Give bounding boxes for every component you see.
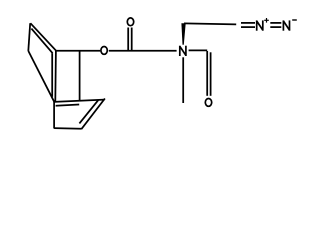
formyl C=O double left line: [206, 51, 208, 96]
bond N-CHO: [189, 49, 208, 51]
diazo C=N+ double bottom line: [241, 26, 255, 28]
carbamate C=O double right line: [131, 28, 133, 51]
ring bond C1=C2 double inner: [31, 29, 52, 54]
bond C2-C9 and C9-O horizontal: [56, 50, 100, 52]
lower ring bond C4b=C4a top edge inner: [56, 105, 80, 106]
azide N+=N- double bottom line: [270, 26, 281, 28]
bond C-N carbamate: [131, 50, 177, 52]
lower ring bond diagonal double main: [81, 99, 105, 130]
atom label O carbonyl carbamate: [127, 18, 133, 26]
lower ring bond bottom edge: [54, 127, 81, 130]
formyl C=O double right line: [210, 52, 212, 96]
lower ring bond left edge: [53, 102, 55, 129]
ring bond C2=C3 vertical inner: [51, 53, 53, 97]
diazo C=N+ double top line: [241, 22, 255, 24]
atom label N carbamate: [180, 46, 186, 56]
atom label N- azide terminal: [283, 20, 289, 30]
bond O-C carbamate: [109, 50, 131, 52]
carbamate C=O double left line: [127, 28, 129, 51]
ring bond C8a-C4b (diagonal to lower ring): [28, 51, 54, 102]
bond N-CH3: [182, 57, 184, 103]
lower ring bond diagonal double inner: [79, 100, 98, 123]
atom label N+ azide: [257, 20, 263, 30]
ring bond C2=C3 vertical main: [54, 51, 57, 102]
charge plus on N+: [264, 18, 269, 23]
atom label O formyl: [205, 99, 211, 107]
bond CH2-C diazo: [184, 23, 236, 24]
ring bond C1-C8a (left edge): [28, 23, 30, 51]
atom label O ester: [101, 47, 107, 55]
lower ring bond C4b=C4a top edge main: [54, 100, 105, 102]
azide N+=N- double top line: [270, 22, 281, 24]
bond C9-C9a vertical: [79, 52, 81, 101]
stereo wedge N-CH2: [181, 23, 185, 45]
charge minus on N-: [292, 19, 297, 21]
ring bond C1=C2 double main (top-left diagonal): [30, 23, 56, 51]
